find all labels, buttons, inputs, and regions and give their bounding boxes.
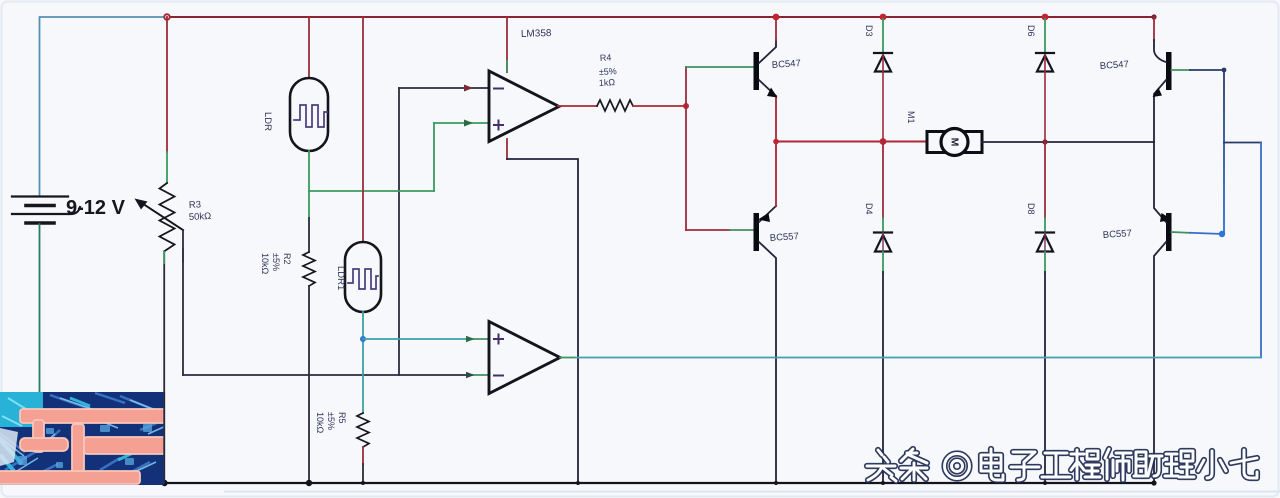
U1B minus glyph <box>494 375 503 377</box>
wire bases vertical rail red <box>685 67 687 230</box>
node Q3 base corner <box>1222 68 1227 73</box>
wire LDR1 top feed red <box>362 17 364 242</box>
transistor Q2 BC557 (left PNP) <box>754 141 800 483</box>
wire mid rail to motor red <box>776 141 927 143</box>
svg-text:±5%: ±5% <box>599 66 617 77</box>
wire LDR1 bottom teal <box>362 312 364 413</box>
svg-text:±5%: ±5% <box>271 253 281 271</box>
wire output column down blue <box>1260 143 1262 358</box>
svg-text:LDR1: LDR1 <box>335 266 346 290</box>
decorative bottom edge line <box>225 491 1280 493</box>
op-amp U1A triangle <box>489 71 559 142</box>
svg-text:10kΩ: 10kΩ <box>315 412 325 434</box>
svg-text:R4: R4 <box>600 52 612 63</box>
wire wiper horizontal to opamp2 inverting <box>183 374 468 376</box>
wire D6 top stub green <box>1044 19 1046 53</box>
node emitters junction <box>773 139 779 145</box>
node top-left junction <box>164 14 170 20</box>
node D6 top rail junction <box>1042 14 1049 21</box>
diode D3 <box>874 53 892 72</box>
svg-text:1kΩ: 1kΩ <box>599 77 616 88</box>
speckles <box>18 424 152 468</box>
wire U1A V- pin down <box>506 139 508 159</box>
transistor Q3 BC547 (right NPN mirrored) <box>1099 17 1171 142</box>
pink traces <box>0 409 166 484</box>
node top rail right end <box>1151 14 1156 19</box>
wire U1B output teal <box>560 357 575 359</box>
wire bases to output column <box>1224 142 1261 144</box>
node rail left corner <box>161 480 167 486</box>
wire right bases vertical blue <box>1223 70 1225 234</box>
node LDR1-R5 tap <box>360 336 366 342</box>
svg-text:±5%: ±5% <box>326 412 336 430</box>
potentiometer R3 wiper arrow <box>144 205 183 231</box>
transistor Q4 BC557 (right PNP mirrored) <box>1102 142 1172 483</box>
svg-text:10kΩ: 10kΩ <box>260 253 270 275</box>
svg-text:R3: R3 <box>189 199 202 211</box>
svg-text:BC547: BC547 <box>771 58 801 71</box>
wire D6 to mid red <box>1044 55 1046 142</box>
cyan block top-left <box>0 392 43 427</box>
wire R3 column green stubs <box>163 252 165 263</box>
node R4-bases junction <box>683 103 689 109</box>
wire motor right to right emitters <box>982 141 1154 143</box>
wire D4 bottom to rail <box>882 252 884 272</box>
wire R5 to rail <box>362 464 364 483</box>
LDR1 inner element <box>348 269 378 289</box>
node diode D3-D4 junction <box>880 138 887 145</box>
wire top rail V+ <box>167 16 1154 18</box>
wire R3 top green stub <box>166 152 168 183</box>
wire D8 bottom to rail <box>1044 252 1046 272</box>
svg-text:9-12 V: 9-12 V <box>66 197 126 219</box>
wire base Q3 <box>1172 69 1191 71</box>
wire base Q1 <box>686 66 753 68</box>
battery V1 <box>12 197 80 224</box>
svg-text:D3: D3 <box>864 25 874 37</box>
svg-text:BC547: BC547 <box>1099 59 1129 72</box>
svg-text:D4: D4 <box>864 203 874 215</box>
wire opamp1 non-inverting input <box>434 122 489 124</box>
svg-text:M: M <box>949 138 961 147</box>
label R2 5% 10k <box>260 253 292 275</box>
svg-text:BC557: BC557 <box>1102 228 1132 241</box>
resistor R2 zigzag <box>303 252 315 286</box>
node D3 top rail junction <box>880 14 887 21</box>
label R4 5% 1k <box>599 52 617 88</box>
U1A plus glyph <box>494 121 503 130</box>
diode D4 <box>874 233 892 252</box>
wire R3 top feed red <box>166 17 168 152</box>
op-amp U1B triangle <box>489 322 560 394</box>
node rail right end <box>1151 480 1156 485</box>
motor M1 <box>906 111 982 156</box>
node rail small junctions <box>361 481 365 485</box>
decorative PCB photo block <box>0 392 166 485</box>
wire base Q4 <box>1172 231 1191 234</box>
wire battery positive top-left (blue) <box>40 17 168 196</box>
svg-text:D8: D8 <box>1026 203 1036 215</box>
wire R3 bottom to ground rail <box>163 252 165 484</box>
wire LDR bottom green <box>308 151 310 218</box>
wire LDR top feed red <box>308 17 310 78</box>
wire R5 bottom red stub <box>362 447 364 464</box>
U1A minus glyph <box>494 88 503 90</box>
svg-text:M1: M1 <box>906 111 916 124</box>
wire D4 top red <box>882 142 884 219</box>
U1B plus glyph <box>494 335 503 344</box>
LDR photoresistor body <box>290 78 328 151</box>
node rail R2 junction <box>306 480 312 486</box>
svg-text:R2: R2 <box>282 253 292 265</box>
wire divider tap to plus rail green <box>309 190 434 192</box>
LDR inner element <box>294 105 327 127</box>
svg-text:D6: D6 <box>1026 25 1036 37</box>
wire over PCB edge <box>163 392 165 483</box>
node D6-D8 junction <box>1042 139 1047 144</box>
wire D8 top red <box>1044 142 1046 218</box>
wire U1A output red <box>558 105 597 107</box>
wire R2 bottom to rail <box>308 286 310 483</box>
wire tap to opamp2 plus teal <box>363 338 468 340</box>
potentiometer R3 zigzag <box>160 183 175 251</box>
wire base Q2 <box>686 229 730 231</box>
svg-text:LM358: LM358 <box>521 28 552 40</box>
svg-text:BC557: BC557 <box>769 231 799 244</box>
node Q4 base junction <box>1219 231 1225 237</box>
wire opamp1 inverting input <box>399 87 489 89</box>
svg-text:50kΩ: 50kΩ <box>189 211 212 223</box>
wire vertical green to opamp1 plus <box>433 123 435 191</box>
diode D6 <box>1036 53 1054 72</box>
resistor R4 zigzag <box>597 100 633 111</box>
wire R4 to bases rail <box>633 105 686 107</box>
transistor Q1 BC547 (left NPN) <box>754 17 802 141</box>
svg-text:LDR: LDR <box>262 112 273 131</box>
diode D8 <box>1036 233 1054 252</box>
wire D3 top stub green <box>882 19 884 53</box>
node Q1 collector on rail <box>773 14 780 21</box>
wire D3 to mid red <box>882 55 884 142</box>
wire R3 wiper down <box>182 230 184 375</box>
wire R2 top <box>308 218 310 252</box>
wire bottom ground rail <box>164 482 1154 484</box>
LDR1 photoresistor body <box>345 242 381 312</box>
resistor R5 zigzag <box>357 413 369 447</box>
svg-text:R5: R5 <box>337 412 347 424</box>
wire feedback vertical to opamp1 inverting <box>398 88 400 375</box>
label R5 5% 10k <box>315 412 347 434</box>
wire U1A V+ pin red <box>506 17 508 72</box>
wire battery negative down (green) <box>39 224 41 410</box>
